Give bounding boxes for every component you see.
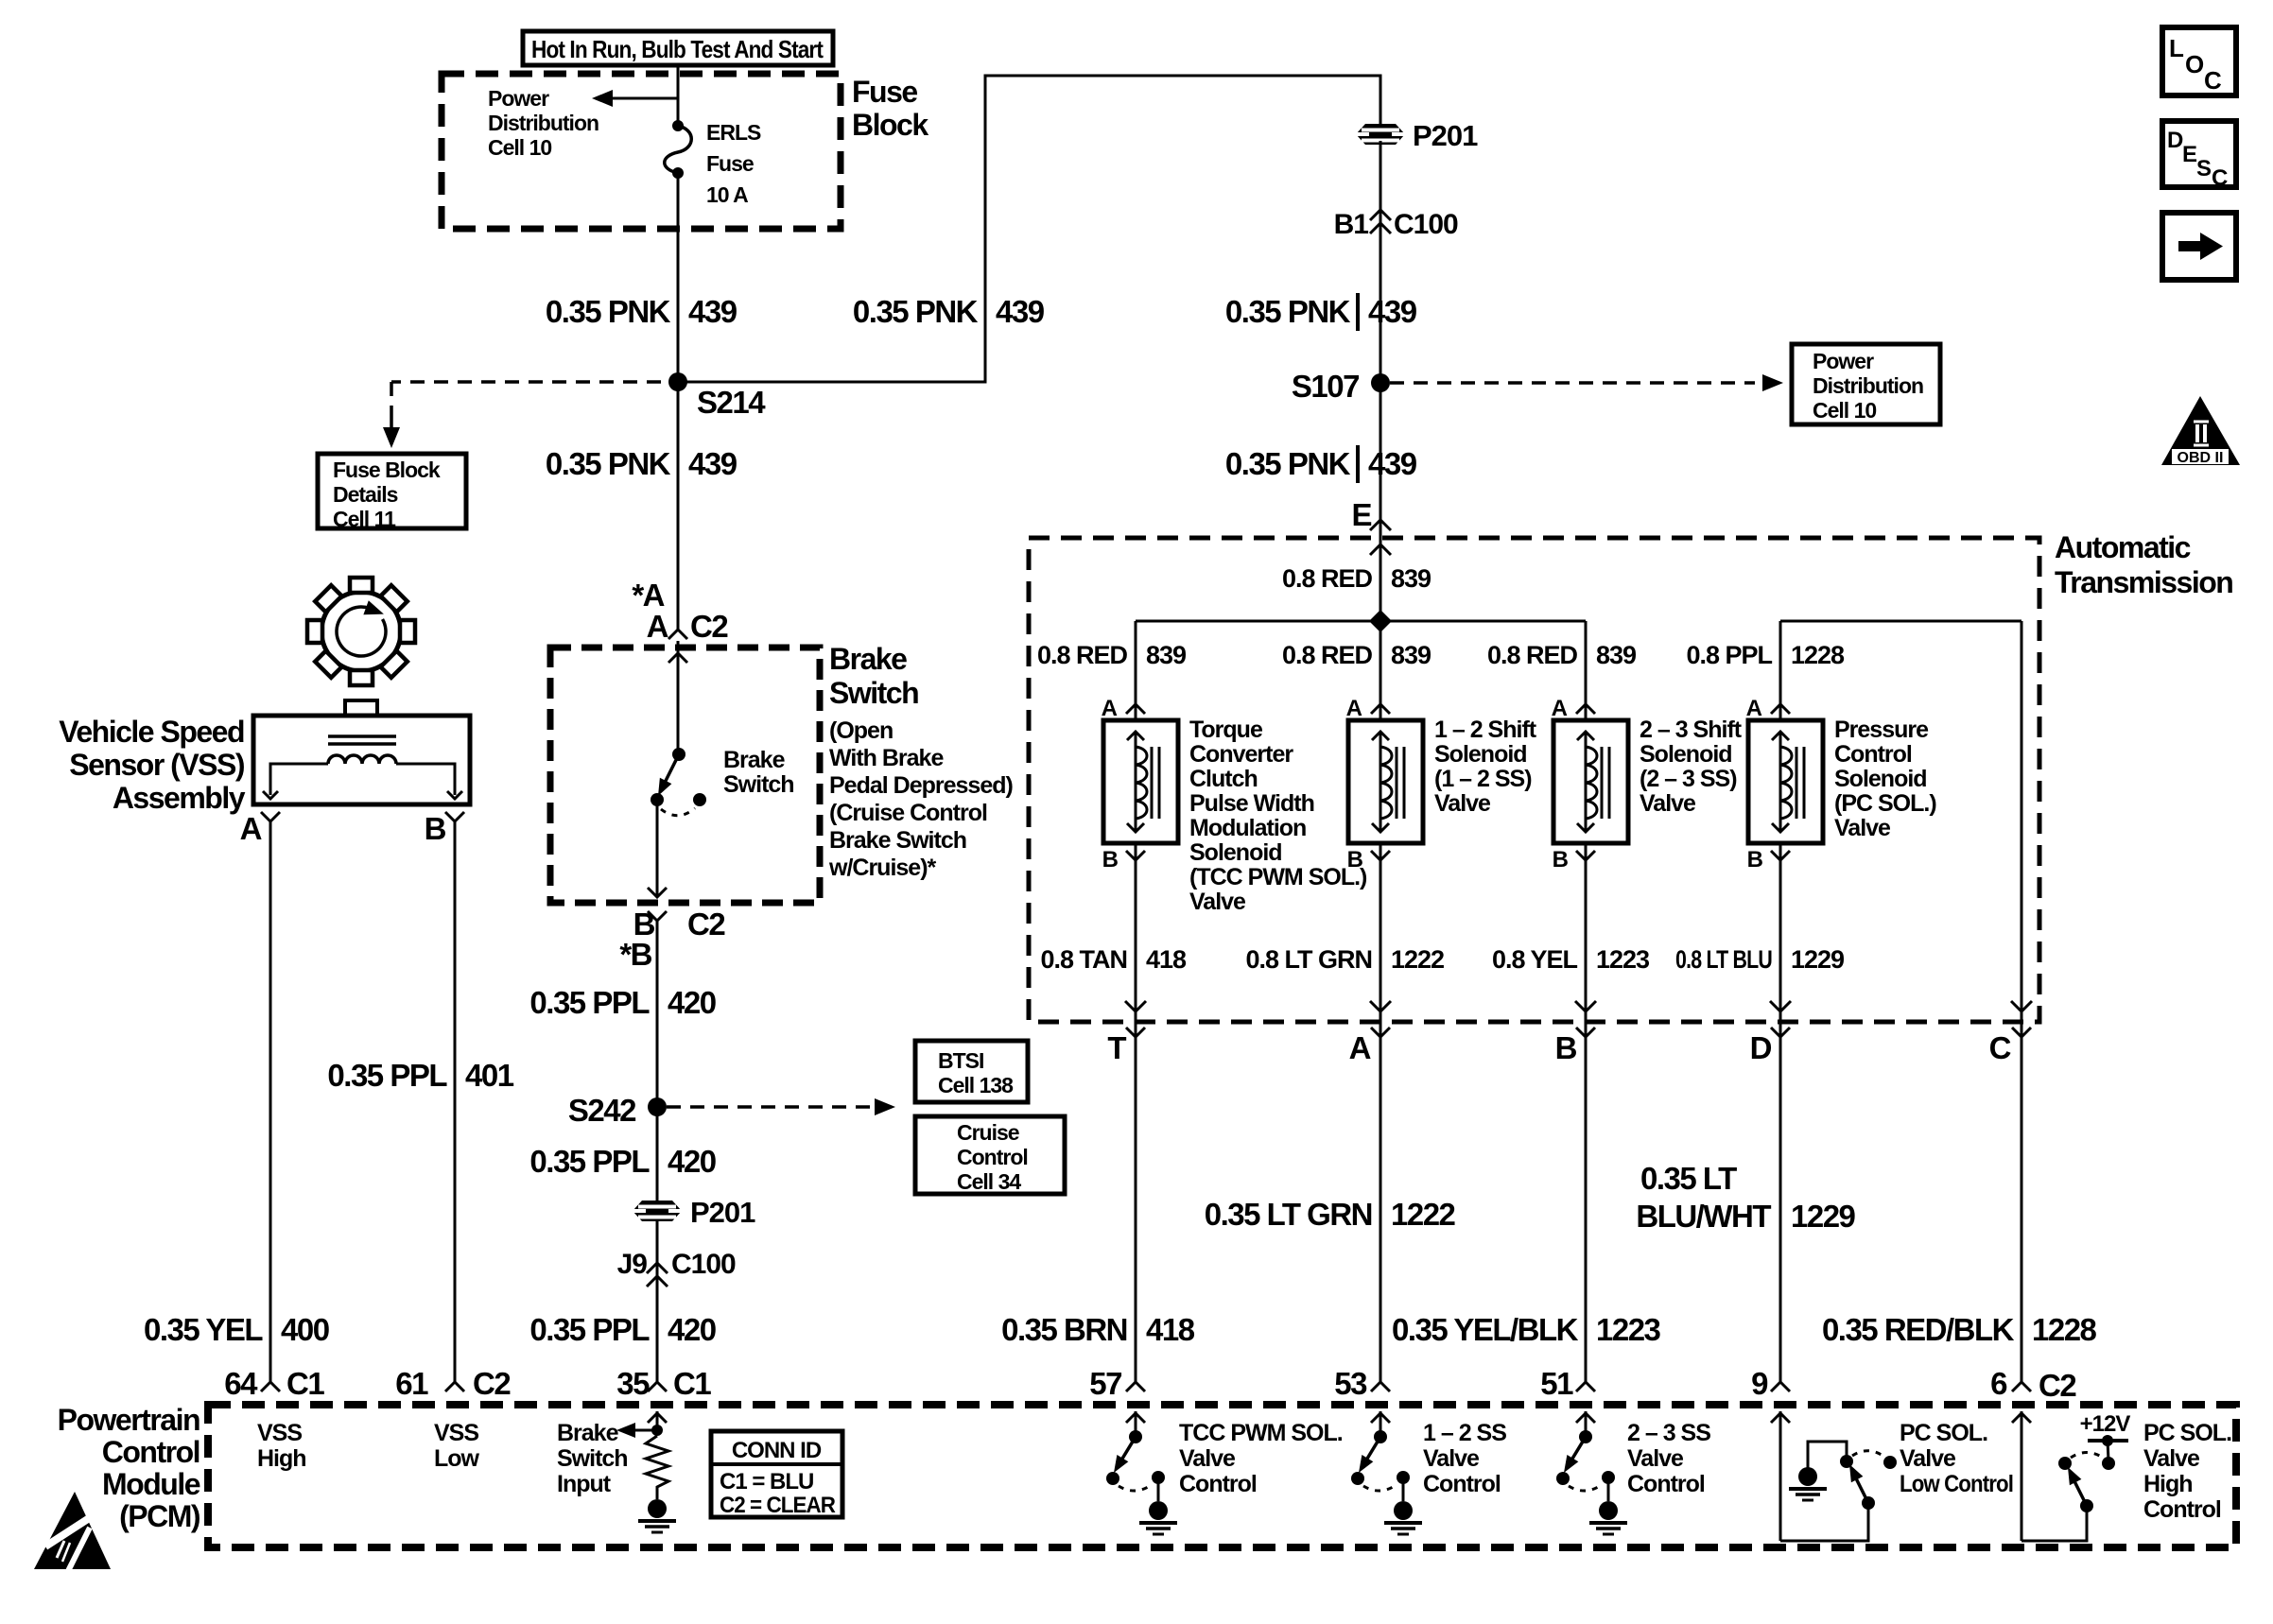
VSS coil	[328, 755, 396, 764]
svg-text:Hot In Run, Bulb Test And Star: Hot In Run, Bulb Test And Start	[531, 35, 824, 63]
wire - TCC PWM solenoid B drop	[1135, 843, 1137, 1037]
svg-text:0.35 PNK: 0.35 PNK	[1225, 446, 1351, 481]
svg-text:0.8 TAN: 0.8 TAN	[1040, 945, 1127, 974]
svg-text:*A: *A	[632, 578, 664, 613]
svg-text:C2: C2	[690, 609, 728, 644]
wire - P201 to C100	[1379, 141, 1382, 382]
arrow to power distribution	[611, 97, 678, 100]
svg-text:439: 439	[1368, 446, 1417, 481]
svg-text:C1: C1	[673, 1366, 711, 1401]
svg-text:Fuse Block: Fuse Block	[333, 458, 441, 482]
svg-text:Power: Power	[488, 86, 549, 111]
svg-text:High: High	[257, 1445, 306, 1472]
svg-text:ERLS: ERLS	[706, 120, 761, 145]
svg-text:C2: C2	[2039, 1368, 2076, 1403]
svg-text:1229: 1229	[1791, 1199, 1856, 1234]
svg-text:439: 439	[688, 294, 737, 329]
svg-text:Solenoid: Solenoid	[1434, 741, 1527, 768]
svg-text:6: 6	[1990, 1366, 2007, 1401]
svg-text:0.35 PPL: 0.35 PPL	[529, 1312, 650, 1347]
svg-text:*B: *B	[619, 937, 651, 972]
svg-text:B1: B1	[1334, 209, 1369, 240]
svg-text:S242: S242	[568, 1093, 636, 1128]
svg-text:D: D	[1750, 1030, 1772, 1065]
svg-text:(PC SOL.): (PC SOL.)	[1834, 790, 1936, 817]
wire - into brake switch	[677, 641, 680, 754]
svg-text:439: 439	[1368, 294, 1417, 329]
svg-text:Automatic: Automatic	[2055, 530, 2191, 564]
wire - solenoid feed bus	[1136, 620, 1586, 623]
1-2 SS valve control switch	[1379, 1411, 1382, 1437]
svg-text:Distribution: Distribution	[488, 111, 599, 135]
svg-text:0.8 RED: 0.8 RED	[1282, 564, 1373, 593]
brake switch contact (lower)	[651, 793, 664, 806]
svg-text:61: 61	[395, 1366, 428, 1401]
svg-text:Fuse: Fuse	[706, 151, 754, 176]
svg-text:Low: Low	[434, 1445, 480, 1472]
svg-text:Cell 10: Cell 10	[1813, 398, 1876, 423]
svg-text:C: C	[2212, 165, 2228, 191]
LOC icon	[2162, 27, 2236, 95]
svg-text:E: E	[2182, 142, 2197, 167]
svg-text:Solenoid: Solenoid	[1640, 741, 1732, 768]
svg-text:Switch: Switch	[829, 676, 918, 710]
wire - VSS A to PCM 64 (YEL 400)	[269, 821, 272, 1382]
VSS pickup core	[328, 734, 396, 738]
svg-text:C100: C100	[1394, 209, 1458, 240]
svg-text:Details: Details	[333, 482, 398, 507]
svg-text:With Brake: With Brake	[829, 745, 944, 771]
PC SOL valve high control switch	[2021, 1411, 2023, 1541]
svg-text:A: A	[1552, 696, 1568, 721]
svg-text:0.8 YEL: 0.8 YEL	[1492, 945, 1578, 974]
svg-text:B: B	[1747, 847, 1763, 872]
wire - S214 down to brake switch pin A	[677, 382, 680, 630]
svg-text:High: High	[2143, 1471, 2193, 1497]
svg-text:420: 420	[668, 985, 716, 1020]
dashed reference arrow S242 to BTSI / cruise	[667, 1105, 870, 1109]
svg-text:839: 839	[1391, 641, 1431, 669]
solenoid coil 1-2 shift solenoid	[1348, 720, 1423, 843]
svg-text:Switch: Switch	[557, 1445, 628, 1472]
wire - VSS B to PCM 61 (PPL 401)	[454, 821, 457, 1382]
svg-text:+12V: +12V	[2080, 1411, 2131, 1437]
svg-text:Torque: Torque	[1189, 717, 1263, 743]
svg-text:PC SOL.: PC SOL.	[2143, 1420, 2231, 1446]
svg-text:P201: P201	[690, 1196, 755, 1229]
svg-text:Power: Power	[1813, 349, 1874, 373]
svg-text:C2: C2	[687, 907, 725, 942]
wire - 2-3 solenoid A drop	[1585, 621, 1588, 720]
svg-text:C2 = CLEAR: C2 = CLEAR	[720, 1493, 836, 1518]
brake switch dashed box	[550, 648, 820, 903]
svg-text:Valve: Valve	[2143, 1445, 2200, 1472]
svg-text:0.35 LT GRN: 0.35 LT GRN	[1205, 1197, 1372, 1232]
svg-text:0.8 PPL: 0.8 PPL	[1686, 641, 1772, 669]
svg-text:B: B	[425, 811, 446, 846]
automatic transmission dashed box	[1029, 538, 2039, 1022]
svg-text:(1 – 2 SS): (1 – 2 SS)	[1434, 766, 1532, 792]
svg-text:Distribution: Distribution	[1813, 373, 1923, 398]
wire - E into transmission with arrow	[1379, 538, 1382, 621]
2-3 SS valve control switch	[1585, 1411, 1588, 1437]
svg-text:0.8 LT BLU: 0.8 LT BLU	[1675, 945, 1772, 974]
svg-text:1222: 1222	[1391, 945, 1444, 974]
wire - 2-3 shift solenoid B drop	[1585, 843, 1588, 1037]
svg-text:Module: Module	[102, 1467, 200, 1501]
svg-text:L: L	[2169, 34, 2184, 62]
svg-text:57: 57	[1089, 1366, 1121, 1401]
fuse block label box 'Hot In Run, Bulb Test And Start'	[523, 31, 833, 65]
svg-text:0.35 LT: 0.35 LT	[1640, 1161, 1737, 1196]
svg-text:VSS: VSS	[257, 1420, 302, 1446]
svg-text:A: A	[240, 811, 262, 846]
svg-text:B: B	[1555, 1030, 1577, 1065]
connector P201 (top)	[1356, 124, 1405, 145]
solenoid coil pressure control solenoid	[1748, 720, 1823, 843]
svg-text:Control: Control	[1423, 1471, 1501, 1497]
svg-text:A: A	[647, 609, 668, 644]
svg-text:0.35 PPL: 0.35 PPL	[529, 985, 650, 1020]
wire - hot feed into fuse	[677, 65, 680, 126]
svg-text:Valve: Valve	[1900, 1445, 1956, 1472]
svg-text:Pulse Width: Pulse Width	[1189, 790, 1314, 817]
VSS body box	[345, 700, 377, 716]
svg-text:(Open: (Open	[829, 717, 893, 744]
VSS gear icon	[321, 592, 401, 671]
solenoid coil 2-3 shift solenoid	[1553, 720, 1628, 843]
wire - pin C riser	[2021, 621, 2023, 1037]
svg-text:A: A	[1746, 696, 1762, 721]
wire - S107 down to transmission pin E	[1379, 383, 1382, 526]
svg-text:Vehicle Speed: Vehicle Speed	[59, 715, 244, 749]
svg-text:Sensor (VSS): Sensor (VSS)	[69, 748, 245, 782]
svg-text:Brake: Brake	[829, 642, 907, 676]
CONN ID legend box	[711, 1431, 842, 1517]
svg-text:Solenoid: Solenoid	[1189, 839, 1282, 866]
svg-text:0.35 PNK: 0.35 PNK	[546, 446, 671, 481]
fuse block details cell 11 reference box	[318, 454, 466, 528]
svg-text:1222: 1222	[1391, 1197, 1456, 1232]
solenoid coil TCC PWM solenoid	[1103, 720, 1178, 843]
svg-text:0.35 RED/BLK: 0.35 RED/BLK	[1822, 1312, 2015, 1347]
DESC icon	[2162, 121, 2236, 187]
svg-text:Valve: Valve	[1189, 889, 1246, 915]
svg-text:0.35 PNK: 0.35 PNK	[1225, 294, 1351, 329]
svg-text:VSS: VSS	[434, 1420, 478, 1446]
svg-text:Block: Block	[852, 108, 928, 142]
svg-text:BLU/WHT: BLU/WHT	[1636, 1199, 1771, 1234]
wire - PC solenoid A drop	[1779, 621, 1782, 720]
svg-text:BTSI: BTSI	[938, 1048, 983, 1073]
svg-text:400: 400	[281, 1312, 329, 1347]
wire - 1-2 solenoid A drop	[1379, 621, 1382, 720]
brake switch contact (upper)	[672, 748, 685, 761]
wire - brake switch output	[656, 800, 659, 897]
svg-text:418: 418	[1146, 1312, 1195, 1347]
ESD sensitivity symbol	[34, 1492, 111, 1569]
brake switch alternate contact	[693, 793, 706, 806]
svg-text:1223: 1223	[1596, 945, 1650, 974]
svg-text:Cell 34: Cell 34	[957, 1169, 1021, 1194]
svg-text:Valve: Valve	[1423, 1445, 1480, 1472]
svg-text:C1: C1	[286, 1366, 324, 1401]
svg-text:Control: Control	[1179, 1471, 1257, 1497]
svg-text:0.35 PNK: 0.35 PNK	[546, 294, 671, 329]
svg-text:Cell 10: Cell 10	[488, 135, 551, 160]
VSS internal leads	[270, 764, 328, 795]
svg-text:A: A	[1102, 696, 1118, 721]
svg-text:Valve: Valve	[1834, 815, 1891, 841]
svg-text:1228: 1228	[1791, 641, 1845, 669]
junction node (RED 839 bus)	[1369, 610, 1392, 632]
svg-text:C100: C100	[671, 1249, 736, 1280]
svg-text:839: 839	[1146, 641, 1187, 669]
svg-text:C: C	[2204, 66, 2222, 95]
svg-text:A: A	[1346, 696, 1362, 721]
svg-text:9: 9	[1751, 1366, 1768, 1401]
svg-text:Clutch: Clutch	[1189, 766, 1258, 792]
wire - TCC solenoid A drop	[1135, 621, 1137, 720]
TCC PWM SOL valve control switch	[1135, 1411, 1137, 1437]
svg-text:Assembly: Assembly	[113, 781, 246, 815]
svg-text:Input: Input	[557, 1471, 612, 1497]
svg-text:2 – 3 Shift: 2 – 3 Shift	[1640, 717, 1743, 743]
svg-text:Cell 138: Cell 138	[938, 1073, 1014, 1097]
svg-text:Cruise: Cruise	[957, 1120, 1019, 1145]
svg-text:Solenoid: Solenoid	[1834, 766, 1927, 792]
wire - pressure control solenoid B drop	[1779, 843, 1782, 1037]
cruise control cell 34 reference box	[915, 1116, 1065, 1194]
dashed reference arrow S107 to power distribution	[1390, 381, 1755, 385]
svg-text:1223: 1223	[1596, 1312, 1661, 1347]
wire - brake switch B down to PCM 35	[656, 921, 659, 1382]
svg-text:418: 418	[1146, 945, 1187, 974]
svg-text:Control: Control	[102, 1435, 200, 1469]
svg-text:(Cruise Control: (Cruise Control	[829, 800, 987, 826]
svg-text:0.8 RED: 0.8 RED	[1487, 641, 1578, 669]
svg-text:1 – 2 Shift: 1 – 2 Shift	[1434, 717, 1537, 743]
svg-text:C: C	[1989, 1030, 2011, 1065]
connector P201 (brake wire)	[633, 1201, 682, 1221]
svg-text:Switch: Switch	[723, 771, 794, 798]
svg-text:w/Cruise)*: w/Cruise)*	[828, 855, 937, 881]
svg-text:420: 420	[668, 1312, 716, 1347]
svg-text:Control: Control	[2143, 1496, 2221, 1523]
svg-text:S214: S214	[697, 385, 766, 420]
wire - fuse output PNK 439 down to S214	[677, 173, 680, 382]
svg-text:PC SOL.: PC SOL.	[1900, 1420, 1987, 1446]
svg-text:Modulation: Modulation	[1189, 815, 1306, 841]
svg-text:53: 53	[1334, 1366, 1367, 1401]
wire - B to PCM 51	[1585, 1037, 1588, 1382]
svg-text:0.35 YEL/BLK: 0.35 YEL/BLK	[1392, 1312, 1579, 1347]
svg-text:0.35 YEL: 0.35 YEL	[144, 1312, 263, 1347]
svg-text:10 A: 10 A	[706, 182, 748, 207]
svg-text:0.8 RED: 0.8 RED	[1037, 641, 1128, 669]
svg-text:J9: J9	[617, 1249, 648, 1280]
svg-text:0.8 LT GRN: 0.8 LT GRN	[1245, 945, 1372, 974]
svg-text:TCC PWM SOL.: TCC PWM SOL.	[1179, 1420, 1343, 1446]
svg-text:Brake Switch: Brake Switch	[829, 827, 966, 854]
svg-text:O: O	[2185, 50, 2204, 78]
svg-text:B: B	[1347, 847, 1363, 872]
wire - C to PCM 6	[2021, 1037, 2023, 1382]
svg-text:OBD II: OBD II	[2178, 450, 2224, 466]
svg-text:B: B	[1102, 847, 1119, 872]
svg-text:B: B	[1553, 847, 1569, 872]
node S214	[668, 372, 687, 391]
svg-text:Control: Control	[957, 1145, 1028, 1169]
svg-text:Valve: Valve	[1179, 1445, 1236, 1472]
forward arrow icon	[2162, 213, 2236, 280]
node S242	[648, 1097, 667, 1116]
wire - 1-2 shift solenoid B drop	[1379, 843, 1382, 1037]
svg-text:1228: 1228	[2032, 1312, 2097, 1347]
wire - S214 right branch up and over to P201	[678, 76, 1380, 382]
node S107	[1371, 373, 1390, 392]
svg-text:Fuse: Fuse	[852, 75, 917, 109]
svg-text:D: D	[2167, 128, 2183, 153]
svg-text:Pedal Depressed): Pedal Depressed)	[829, 772, 1013, 799]
svg-text:0.35 PPL: 0.35 PPL	[327, 1058, 447, 1093]
svg-text:0.35 PPL: 0.35 PPL	[529, 1144, 650, 1179]
svg-text:(PCM): (PCM)	[119, 1499, 200, 1533]
svg-text:420: 420	[668, 1144, 716, 1179]
fuse block dashed box	[442, 74, 841, 229]
svg-text:51: 51	[1540, 1366, 1573, 1401]
svg-text:439: 439	[688, 446, 737, 481]
svg-text:1 – 2 SS: 1 – 2 SS	[1423, 1420, 1506, 1446]
svg-text:Control: Control	[1834, 741, 1912, 768]
wire - D to PCM 9	[1779, 1037, 1782, 1382]
svg-text:E: E	[1351, 497, 1371, 532]
svg-text:(2 – 3 SS): (2 – 3 SS)	[1640, 766, 1737, 792]
svg-text:CONN ID: CONN ID	[732, 1438, 822, 1463]
svg-text:(TCC PWM SOL.): (TCC PWM SOL.)	[1189, 864, 1367, 890]
svg-text:Valve: Valve	[1640, 790, 1696, 817]
svg-text:1229: 1229	[1791, 945, 1845, 974]
svg-text:C2: C2	[473, 1366, 511, 1401]
brake switch input circuit	[656, 1411, 659, 1430]
svg-text:Low Control: Low Control	[1900, 1471, 2013, 1497]
svg-text:839: 839	[1596, 641, 1637, 669]
connector B1 C100	[1370, 210, 1391, 220]
svg-text:Control: Control	[1627, 1471, 1705, 1497]
svg-text:C1 = BLU: C1 = BLU	[720, 1469, 813, 1494]
svg-text:Converter: Converter	[1189, 741, 1293, 768]
svg-text:0.35 PNK: 0.35 PNK	[853, 294, 979, 329]
svg-text:A: A	[1349, 1030, 1371, 1065]
svg-text:Brake: Brake	[557, 1420, 619, 1446]
OBD II triangle icon	[2161, 396, 2240, 465]
svg-text:Powertrain: Powertrain	[58, 1403, 200, 1437]
svg-text:P201: P201	[1413, 119, 1478, 152]
dashed reference arrow S214 to fuse block details	[391, 380, 661, 384]
PC SOL valve low control switch	[1779, 1411, 1782, 1541]
svg-text:S: S	[2196, 156, 2212, 181]
svg-text:Pressure: Pressure	[1834, 717, 1929, 743]
svg-text:Valve: Valve	[1627, 1445, 1684, 1472]
svg-text:439: 439	[996, 294, 1045, 329]
svg-text:64: 64	[224, 1366, 258, 1401]
powertrain control module dashed box	[208, 1405, 2236, 1547]
svg-text:839: 839	[1391, 564, 1431, 593]
svg-text:Brake: Brake	[723, 747, 786, 773]
svg-text:0.35 BRN: 0.35 BRN	[1001, 1312, 1127, 1347]
svg-text:T: T	[1107, 1030, 1126, 1065]
svg-text:Valve: Valve	[1434, 790, 1491, 817]
wire - T to PCM 57	[1135, 1037, 1137, 1382]
svg-text:0.8 RED: 0.8 RED	[1282, 641, 1373, 669]
brake switch blade	[663, 754, 679, 786]
power distribution cell 10 reference box (right)	[1792, 344, 1940, 424]
BTSI cell 138 reference box	[915, 1041, 1028, 1102]
svg-text:401: 401	[465, 1058, 514, 1093]
svg-text:35: 35	[616, 1366, 650, 1401]
fuse F1 ERLS 10A element	[672, 120, 684, 131]
svg-text:2 – 3 SS: 2 – 3 SS	[1627, 1420, 1710, 1446]
svg-text:Transmission: Transmission	[2055, 565, 2232, 599]
wire - A to PCM 53	[1379, 1037, 1382, 1382]
svg-text:S107: S107	[1292, 369, 1359, 404]
svg-text:Cell 11: Cell 11	[333, 507, 396, 531]
